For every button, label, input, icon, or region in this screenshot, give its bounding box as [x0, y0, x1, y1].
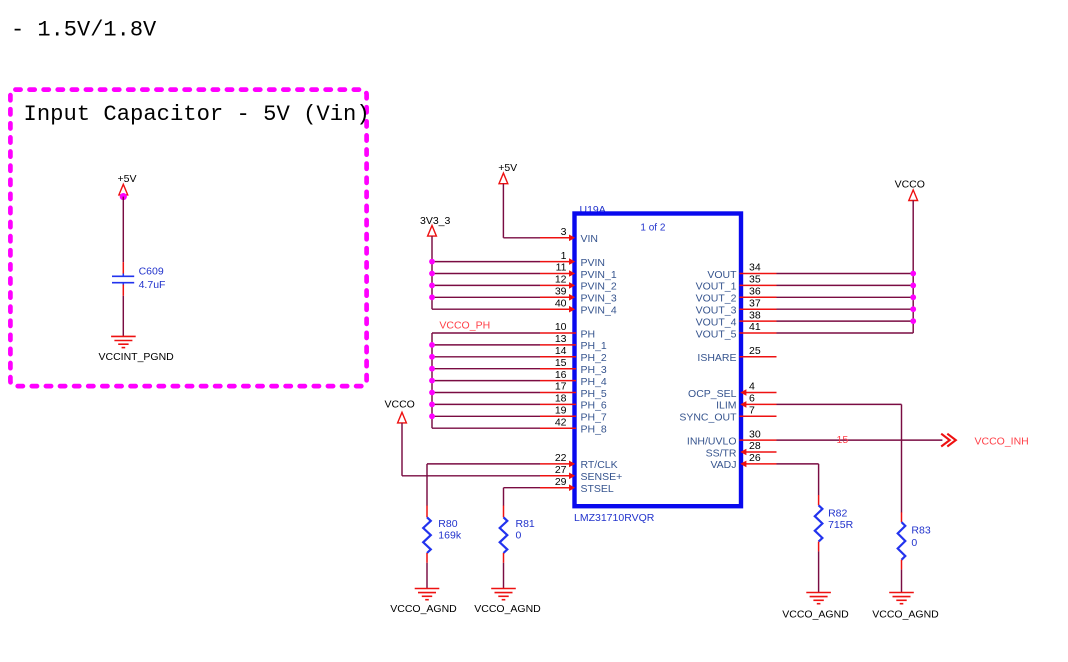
svg-text:+5V: +5V: [118, 173, 137, 185]
svg-text:ILIM: ILIM: [716, 400, 736, 412]
pin 6 ILIM: [716, 393, 776, 412]
pin 7 SYNC_OUT: [679, 405, 776, 424]
ground VCCO_AGND (R80): [415, 589, 440, 600]
power VCCO arrow (right): [909, 190, 918, 201]
svg-text:VCCO_PH: VCCO_PH: [439, 320, 490, 332]
svg-text:VIN: VIN: [581, 233, 599, 245]
label R83: [911, 525, 930, 537]
svg-text:PH_5: PH_5: [581, 388, 607, 400]
svg-text:VOUT_3: VOUT_3: [696, 305, 737, 317]
IC part number LMZ31710RVQR: [574, 512, 655, 524]
svg-text:PH_8: PH_8: [581, 424, 607, 436]
svg-text:22: 22: [555, 452, 567, 464]
svg-text:0: 0: [516, 529, 522, 541]
svg-text:PH_1: PH_1: [581, 340, 607, 352]
IC U19A body LMZ31710RVQR: [575, 214, 742, 507]
pin 13 PH_1: [540, 333, 607, 352]
ground VCCO_AGND (R83): [889, 593, 914, 604]
svg-text:STSEL: STSEL: [581, 483, 614, 495]
junction dot PVIN bus 2: [429, 283, 435, 289]
label R81: [516, 518, 535, 530]
svg-text:169k: 169k: [438, 529, 462, 541]
svg-text:VCCO_AGND: VCCO_AGND: [872, 609, 939, 621]
pin 42 PH_8: [540, 416, 607, 435]
ground VCCO_AGND (R82): [806, 593, 831, 604]
svg-text:30: 30: [749, 428, 761, 440]
wire +5V down to VIN row: [503, 184, 540, 238]
svg-text:VCCO: VCCO: [385, 399, 415, 411]
pin 38 VOUT_4: [696, 309, 777, 328]
svg-text:PVIN_1: PVIN_1: [581, 269, 617, 281]
pin 30 INH/UVLO: [687, 428, 777, 447]
pin 29 STSEL: [540, 476, 614, 495]
junction dot PVIN bus 1: [429, 271, 435, 277]
svg-text:41: 41: [749, 321, 761, 333]
label VCCO_AGND (R81): [474, 603, 541, 615]
label R80: [438, 518, 457, 530]
wire VOUT row 5 to bus: [777, 332, 914, 334]
junction dot PH bus 1: [429, 354, 435, 360]
junction dot VOUT bus 4: [910, 318, 916, 324]
pin 15 PH_3: [540, 357, 607, 376]
svg-text:VADJ: VADJ: [710, 459, 736, 471]
wire VOUT row 0 to bus: [777, 273, 914, 275]
wire VCCO bus vertical: [912, 201, 914, 334]
wire INH/UVLO to off-page: [777, 439, 943, 441]
pin 35 VOUT_1: [696, 274, 777, 293]
svg-text:LMZ31710RVQR: LMZ31710RVQR: [574, 512, 655, 524]
pin 4 OCP_SEL: [688, 381, 776, 400]
power +5V label (box): [118, 173, 137, 185]
label VCCO_AGND (R80): [390, 603, 457, 615]
wire PVIN bus to pin row 2: [432, 284, 540, 286]
pin 17 PH_5: [540, 381, 607, 400]
svg-text:PVIN_4: PVIN_4: [581, 305, 617, 317]
pin 26 VADJ: [710, 452, 776, 471]
svg-text:1: 1: [561, 250, 567, 262]
junction dot PH bus 0: [429, 342, 435, 348]
wire ILIM to R83: [777, 404, 902, 512]
svg-text:17: 17: [555, 381, 567, 393]
wire VOUT row 2 to bus: [777, 296, 914, 298]
svg-text:VOUT: VOUT: [707, 269, 737, 281]
svg-text:12: 12: [555, 274, 567, 286]
junction dot VOUT bus 2: [910, 294, 916, 300]
title text - 1.5V/1.8V: [11, 18, 157, 43]
svg-text:4.7uF: 4.7uF: [139, 279, 166, 291]
wire PVIN bus to pin row 4: [432, 308, 540, 310]
svg-text:VOUT_4: VOUT_4: [696, 316, 737, 328]
svg-text:40: 40: [555, 297, 567, 309]
wire PH bus to pin row 5: [432, 392, 540, 394]
pin 14 PH_2: [540, 345, 607, 364]
net number 15: [837, 434, 849, 446]
wire R83 to ground: [901, 570, 903, 593]
svg-text:PH_7: PH_7: [581, 412, 607, 424]
svg-text:10: 10: [555, 321, 567, 333]
pin 39 PVIN_3: [540, 286, 617, 305]
svg-text:SS/TR: SS/TR: [706, 447, 737, 459]
wire PVIN bus to pin row 1: [432, 273, 540, 275]
svg-text:VCCINT_PGND: VCCINT_PGND: [99, 351, 175, 363]
svg-text:PH_4: PH_4: [581, 376, 607, 388]
wire PH bus to pin row 8: [432, 427, 540, 429]
wire R80 to ground: [426, 563, 428, 589]
wire VADJ to R82: [777, 464, 819, 495]
svg-text:37: 37: [749, 297, 761, 309]
svg-text:PH_3: PH_3: [581, 364, 607, 376]
power +5V arrow (box): [119, 184, 128, 195]
wire PH bus to pin row 0: [432, 332, 540, 334]
junction dot VOUT bus 3: [910, 306, 916, 312]
pin 37 VOUT_3: [696, 297, 777, 316]
svg-text:36: 36: [749, 286, 761, 298]
svg-text:29: 29: [555, 476, 567, 488]
svg-text:14: 14: [555, 345, 567, 357]
power +5V arrow (VIN): [499, 173, 508, 184]
wire +5V to C609: [122, 197, 124, 263]
pin 16 PH_4: [540, 369, 607, 388]
svg-text:R81: R81: [516, 518, 535, 530]
power +5V label (VIN): [498, 162, 517, 174]
label 715R: [828, 519, 854, 531]
svg-text:OCP_SEL: OCP_SEL: [688, 388, 737, 400]
svg-text:RT/CLK: RT/CLK: [581, 459, 618, 471]
wire PH bus to pin row 1: [432, 344, 540, 346]
svg-text:26: 26: [749, 452, 761, 464]
svg-text:VCCO_AGND: VCCO_AGND: [782, 609, 849, 621]
label VCCO_AGND (R83): [872, 609, 939, 621]
label 0 (R83): [911, 537, 917, 549]
svg-text:PH_6: PH_6: [581, 400, 607, 412]
pin 22 RT/CLK: [540, 452, 618, 471]
svg-text:VOUT_2: VOUT_2: [696, 293, 737, 305]
power VCCO label (right): [895, 179, 925, 191]
pin 34 VOUT: [707, 262, 776, 281]
svg-text:VOUT_5: VOUT_5: [696, 328, 737, 340]
label R82: [828, 508, 847, 520]
svg-text:SYNC_OUT: SYNC_OUT: [679, 412, 737, 424]
svg-text:3V3_3: 3V3_3: [420, 215, 451, 227]
label 0 (R81): [516, 529, 522, 541]
pin 1 PVIN: [540, 250, 605, 269]
resistor R82: [815, 495, 823, 551]
svg-text:PVIN_2: PVIN_2: [581, 281, 617, 293]
svg-text:7: 7: [749, 405, 755, 417]
svg-text:6: 6: [749, 393, 755, 405]
svg-text:4: 4: [749, 381, 755, 393]
svg-text:25: 25: [749, 345, 761, 357]
pin 27 SENSE+: [540, 464, 622, 483]
junction dot PH bus 6: [429, 413, 435, 419]
svg-text:VCCO_AGND: VCCO_AGND: [474, 603, 541, 615]
wire VOUT row 1 to bus: [777, 284, 914, 286]
pin 40 PVIN_4: [540, 297, 617, 316]
wire PH bus to pin row 6: [432, 403, 540, 405]
label 169k: [438, 529, 462, 541]
svg-text:715R: 715R: [828, 519, 854, 531]
power 3V3_3 label: [420, 215, 451, 227]
net label VCCO_INH: [975, 436, 1029, 448]
svg-text:PH: PH: [581, 328, 596, 340]
pin 28 SS/TR: [706, 440, 777, 459]
capacitor C609: [112, 262, 134, 296]
svg-text:42: 42: [555, 416, 567, 428]
svg-text:C609: C609: [139, 266, 164, 278]
svg-text:ISHARE: ISHARE: [697, 352, 736, 364]
pin 36 VOUT_2: [696, 286, 777, 305]
svg-text:16: 16: [555, 369, 567, 381]
svg-text:18: 18: [555, 393, 567, 405]
pin 12 PVIN_2: [540, 274, 617, 293]
svg-text:VOUT_1: VOUT_1: [696, 281, 737, 293]
junction dot PH bus 5: [429, 402, 435, 408]
label 4.7uF: [139, 279, 166, 291]
junction dot at +5V: [120, 193, 127, 200]
svg-text:Input Capacitor - 5V (Vin): Input Capacitor - 5V (Vin): [24, 102, 370, 127]
wire R81 to ground: [503, 563, 505, 589]
svg-text:VCCO_INH: VCCO_INH: [975, 436, 1029, 448]
wire C609 to ground: [122, 296, 124, 337]
svg-text:0: 0: [911, 537, 917, 549]
svg-text:R82: R82: [828, 508, 847, 520]
svg-text:35: 35: [749, 274, 761, 286]
svg-text:15: 15: [837, 434, 849, 446]
power VCCO label (left): [385, 399, 415, 411]
box title Input Capacitor - 5V (Vin): [24, 102, 370, 127]
svg-text:11: 11: [556, 262, 567, 274]
svg-text:15: 15: [555, 357, 567, 369]
svg-text:PVIN_3: PVIN_3: [581, 293, 617, 305]
svg-text:1 of 2: 1 of 2: [640, 222, 665, 233]
svg-text:3: 3: [561, 226, 567, 238]
pin 19 PH_7: [540, 405, 607, 424]
resistor R83: [898, 512, 906, 569]
wire VCCO to SENSE+: [402, 423, 540, 476]
resistor R81: [500, 506, 508, 563]
power 3V3_3 arrow: [428, 226, 437, 237]
svg-text:VCCO_AGND: VCCO_AGND: [390, 603, 457, 615]
wire 3V3_3 bus vertical: [431, 236, 433, 309]
wire R82 to ground: [818, 551, 820, 592]
svg-text:PH_2: PH_2: [581, 352, 607, 364]
off-page connector chevrons: [941, 434, 956, 447]
junction dot VOUT bus 1: [910, 283, 916, 289]
pin 10 PH: [540, 321, 595, 340]
svg-text:PVIN: PVIN: [581, 257, 606, 269]
junction dot PVIN bus 3: [429, 294, 435, 300]
wire PVIN bus to pin row 0: [432, 261, 540, 263]
svg-text:+5V: +5V: [498, 162, 517, 174]
svg-text:28: 28: [749, 440, 761, 452]
pin 3 VIN: [540, 226, 598, 245]
wire VOUT row 4 to bus: [777, 320, 914, 322]
junction dot PH bus 3: [429, 378, 435, 384]
svg-text:39: 39: [555, 286, 567, 298]
pin 41 VOUT_5: [696, 321, 777, 340]
wire RT/CLK to R80: [427, 464, 540, 506]
junction dot PH bus 2: [429, 366, 435, 372]
wire PH bus to pin row 3: [432, 368, 540, 370]
ground VCCINT_PGND: [111, 336, 136, 347]
label C609: [139, 266, 164, 278]
svg-text:- 1.5V/1.8V: - 1.5V/1.8V: [11, 18, 157, 43]
IC U19A refdes: [580, 204, 606, 216]
svg-text:19: 19: [555, 405, 567, 417]
pin 25 ISHARE: [697, 345, 776, 364]
wire STSEL to R81: [504, 488, 541, 506]
svg-text:R80: R80: [438, 518, 457, 530]
junction dot VOUT bus 0: [910, 271, 916, 277]
label VCCINT_PGND: [99, 351, 175, 363]
wire PH bus vertical: [431, 333, 433, 428]
IC label 1 of 2: [640, 222, 665, 233]
svg-text:38: 38: [749, 309, 761, 321]
wire PVIN bus to pin row 3: [432, 296, 540, 298]
power VCCO arrow (left): [398, 412, 407, 423]
net label VCCO_PH: [439, 320, 490, 332]
wire PH bus to pin row 2: [432, 356, 540, 358]
svg-text:13: 13: [555, 333, 567, 345]
wire PH bus to pin row 4: [432, 380, 540, 382]
ground VCCO_AGND (R81): [491, 589, 516, 600]
junction dot PH bus 4: [429, 390, 435, 396]
wire PH bus to pin row 7: [432, 415, 540, 417]
resistor R80: [423, 506, 431, 563]
svg-text:INH/UVLO: INH/UVLO: [687, 435, 737, 447]
svg-text:VCCO: VCCO: [895, 179, 925, 191]
pin 18 PH_6: [540, 393, 607, 412]
pin 11 PVIN_1: [540, 262, 617, 281]
junction dot PVIN bus 0: [429, 259, 435, 265]
svg-text:SENSE+: SENSE+: [581, 471, 623, 483]
svg-text:34: 34: [749, 262, 761, 274]
label VCCO_AGND (R82): [782, 609, 849, 621]
dashed region box: [10, 90, 366, 387]
svg-text:27: 27: [555, 464, 567, 476]
svg-text:R83: R83: [911, 525, 930, 537]
wire VOUT row 3 to bus: [777, 308, 914, 310]
